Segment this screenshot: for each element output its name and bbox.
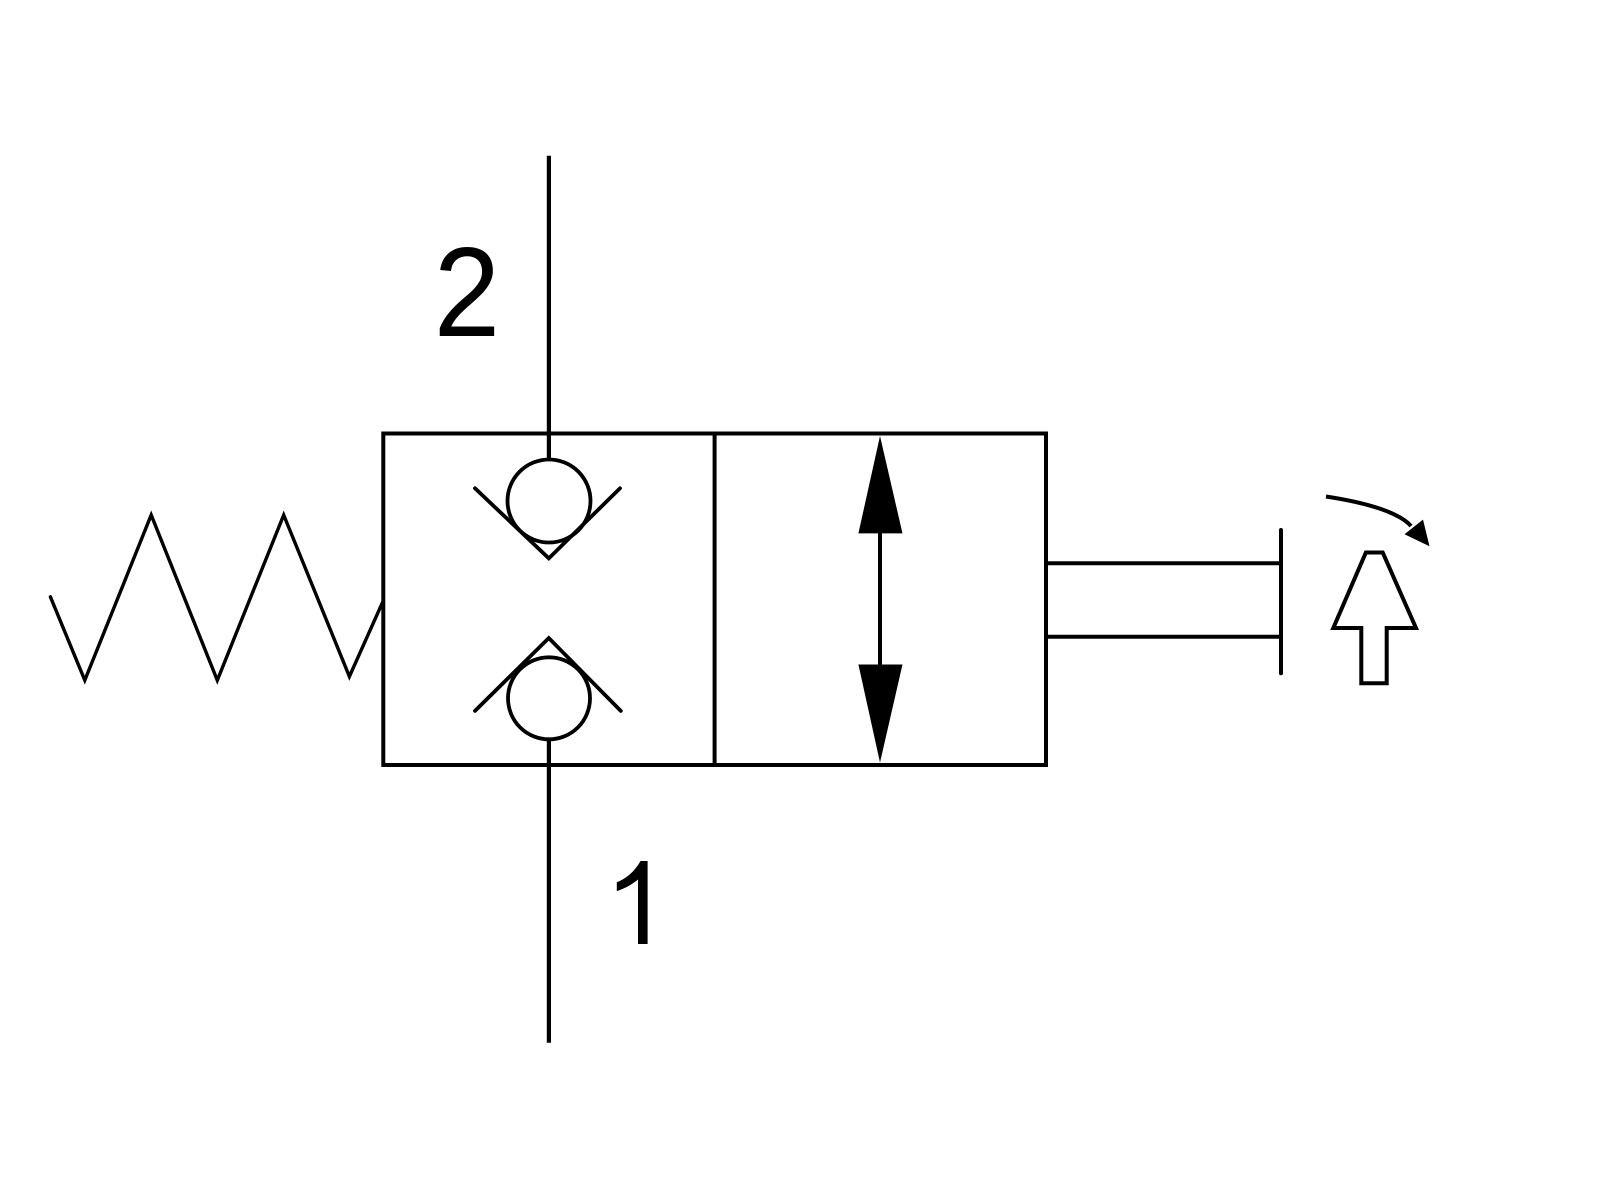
actuator end plate bbox=[1279, 530, 1283, 673]
spring (return spring, left) bbox=[50, 515, 382, 680]
svg-text:2: 2 bbox=[434, 221, 500, 363]
rotation arrowhead bbox=[1405, 520, 1430, 547]
valve body outline bbox=[383, 434, 1046, 766]
check valve lower: seat chevron bbox=[475, 638, 621, 711]
check valve upper: circle bbox=[508, 460, 591, 543]
check valve upper: seat chevron bbox=[475, 488, 620, 558]
port 2 line bbox=[547, 156, 551, 461]
flow arrow lower head bbox=[858, 665, 902, 763]
actuator rod upper line bbox=[1046, 561, 1281, 565]
position divider bbox=[713, 434, 717, 766]
manual override arrow (outline) bbox=[1333, 553, 1416, 684]
rotation arc bbox=[1326, 497, 1411, 527]
actuator rod lower line bbox=[1046, 635, 1281, 639]
check valve lower: circle bbox=[508, 657, 590, 739]
flow arrow upper head bbox=[858, 436, 902, 533]
flow arrow shaft (right compartment) bbox=[878, 531, 882, 667]
port 1 line bbox=[547, 738, 551, 1043]
port label 1 bbox=[617, 861, 648, 944]
